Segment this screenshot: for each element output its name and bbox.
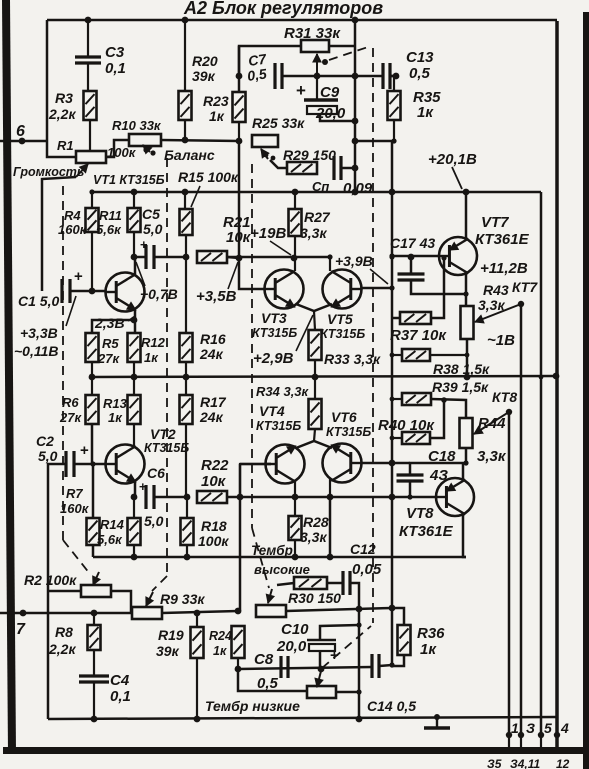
wire bottom bus (48, 717, 557, 719)
capacitor C12 (343, 541, 382, 595)
svg-text:R8: R8 (55, 624, 73, 640)
wire number 12 (556, 757, 570, 769)
svg-text:С4: С4 (110, 672, 130, 689)
capacitor C9 electrolytic (296, 81, 355, 122)
wire VT3 collector (294, 258, 296, 271)
ground symbol (424, 714, 450, 728)
svg-text:~0,11В: ~0,11В (14, 343, 59, 359)
svg-text:5,0: 5,0 (38, 448, 58, 464)
svg-text:3,3к: 3,3к (300, 225, 327, 241)
svg-text:С6: С6 (147, 465, 165, 481)
svg-text:3,3к: 3,3к (300, 529, 327, 545)
wire C7 right (283, 75, 394, 78)
svg-text:24к: 24к (199, 346, 224, 362)
svg-text:VT6: VT6 (331, 409, 357, 425)
svg-text:0,5: 0,5 (257, 675, 279, 692)
transistor VT5 (323, 270, 362, 309)
svg-text:R27: R27 (304, 209, 331, 225)
label Баланс (164, 147, 215, 163)
node VT4 collector (292, 494, 299, 501)
label 2,3В (94, 315, 135, 331)
wire input 6 (0, 138, 47, 145)
svg-text:+3,3В: +3,3В (20, 325, 58, 341)
label VT6 (326, 409, 371, 439)
wire C8/C14 row (238, 667, 372, 669)
svg-text:5: 5 (544, 720, 552, 736)
resistor R20 (179, 20, 218, 140)
wire mid bus (92, 376, 557, 377)
svg-text:1: 1 (511, 720, 519, 736)
svg-text:R36: R36 (417, 625, 445, 642)
resistor R27 (289, 192, 331, 258)
svg-text:КТ315Б: КТ315Б (326, 425, 371, 439)
resistor R15 (178, 169, 239, 257)
wire VT8 emitter bottom (463, 514, 466, 557)
potentiometer R44 (460, 415, 507, 465)
svg-text:R23: R23 (203, 93, 229, 109)
node R23/R25 (236, 138, 243, 145)
svg-text:10к: 10к (226, 229, 252, 246)
potentiometer R31 (284, 25, 341, 52)
wire VT4 base (240, 463, 271, 466)
wire VT7 base long (227, 253, 439, 258)
label +0,7В (136, 262, 178, 302)
svg-text:4: 4 (560, 720, 569, 736)
wire supply rail +20,1V (92, 191, 541, 194)
svg-text:5,6к: 5,6к (96, 222, 122, 237)
svg-text:0,5: 0,5 (409, 65, 431, 82)
label Тембр (251, 543, 293, 558)
resistor R22 (197, 457, 229, 503)
wire R2 right (111, 591, 131, 613)
resistor R28 (289, 497, 329, 557)
svg-text:1к: 1к (420, 641, 437, 658)
wire C13 right / R35 top (390, 73, 399, 80)
svg-text:R34 3,3к: R34 3,3к (256, 384, 310, 399)
wire terminal 1 drop (508, 412, 511, 735)
wire VT6 base right (362, 460, 410, 467)
node C17 top (408, 254, 415, 261)
capacitor C13 (383, 49, 434, 89)
node C18 bottom (407, 494, 412, 499)
potentiometer R25 (252, 115, 305, 147)
label VT8 (399, 505, 454, 540)
svg-text:VT8: VT8 (406, 505, 434, 522)
resistor R21 (197, 214, 252, 263)
svg-text:R30 150: R30 150 (288, 590, 341, 606)
node R12/R13 bus (131, 374, 138, 381)
resistor R30 (288, 577, 341, 606)
svg-text:2,2к: 2,2к (48, 106, 76, 122)
transistor VT3 (265, 270, 304, 309)
potentiometer vysokie pot (256, 605, 286, 617)
pot R2 wiper (93, 572, 100, 585)
potentiometer R1 (57, 138, 106, 163)
svg-text:R24: R24 (209, 629, 232, 643)
pin label 5 (544, 720, 552, 736)
node R39 left (390, 397, 395, 402)
svg-text:R40 10к: R40 10к (378, 417, 435, 434)
label VT5 (320, 311, 365, 341)
label Тембр низкие (205, 698, 300, 714)
label ~1В (487, 332, 515, 349)
wire VT2 emitter (134, 481, 137, 497)
resistor R35 (388, 76, 442, 141)
node C4 bottom (91, 716, 98, 723)
transistor VT8 (436, 478, 474, 516)
node R24 top (235, 608, 242, 615)
svg-text:R4: R4 (64, 208, 81, 223)
resistor R34 (256, 377, 322, 429)
dashed link R31 (329, 46, 371, 60)
svg-text:КТ8: КТ8 (492, 389, 517, 405)
svg-text:+: + (80, 442, 89, 459)
node rail x392 (389, 189, 396, 196)
label VT7 (475, 214, 530, 248)
wire VT7 collector bottom (465, 273, 468, 306)
wire terminal 3 drop (520, 304, 523, 735)
pot nizkie wiper (315, 671, 323, 687)
svg-text:VT3: VT3 (261, 310, 287, 326)
svg-text:+: + (139, 479, 147, 494)
wire VT4 collector (294, 480, 296, 497)
svg-text:20,0: 20,0 (315, 105, 346, 122)
node VT6 collector (327, 494, 334, 501)
node R38 right (465, 353, 470, 358)
svg-text:3,3к: 3,3к (477, 448, 507, 465)
svg-text:R17: R17 (200, 394, 227, 410)
resistor R17 (180, 377, 227, 497)
node R38 left (390, 353, 395, 358)
node R40 left (390, 436, 395, 441)
svg-text:+20,1В: +20,1В (428, 151, 477, 168)
transistor VT7 (439, 237, 477, 275)
pot R44 wiper (474, 409, 512, 434)
svg-text:+: + (296, 81, 306, 100)
node rail R11 (131, 189, 138, 196)
pot R9 wiper (146, 592, 153, 606)
wire terminal 4 drop (556, 376, 558, 735)
resistor R37 (390, 255, 447, 344)
node x355 R35wire (352, 138, 359, 145)
svg-text:С8: С8 (254, 651, 274, 668)
svg-text:R12: R12 (141, 335, 166, 350)
label 100к (R1) (107, 145, 137, 160)
svg-text:~1В: ~1В (487, 332, 515, 349)
svg-text:20,0: 20,0 (276, 638, 307, 655)
node +19V collector (291, 255, 298, 262)
svg-text:+3,5В: +3,5В (196, 288, 237, 305)
pin label 3 (526, 720, 535, 736)
label +3,5В (196, 262, 238, 305)
node VT1 collector (131, 254, 138, 261)
svg-text:R9 33к: R9 33к (160, 591, 205, 607)
wire C12 left (327, 582, 343, 585)
svg-text:39к: 39к (192, 68, 216, 84)
svg-text:С17 43: С17 43 (390, 235, 435, 251)
resistor R7 (60, 464, 100, 557)
svg-text:0,05: 0,05 (352, 561, 382, 578)
border frame right inner line (555, 21, 559, 747)
node lowerbus R18 (184, 554, 191, 561)
wire VT3 base column (239, 141, 265, 289)
node x392 base (389, 254, 394, 259)
svg-text:R16: R16 (200, 331, 226, 347)
node top rail junction R20 (182, 17, 189, 24)
svg-text:R3: R3 (55, 90, 73, 106)
wire terminal 5 drop (540, 192, 543, 735)
svg-text:КТ7: КТ7 (512, 279, 538, 295)
node C17 emitter (463, 291, 468, 296)
dashed link volume gang (63, 186, 90, 574)
capacitor C4 (79, 672, 131, 719)
wire VT6 collector (329, 479, 331, 497)
label +11,2В (480, 260, 528, 277)
svg-text:VT4: VT4 (259, 403, 285, 419)
wire C2 left loop (48, 464, 66, 719)
node R21 right (236, 255, 243, 262)
svg-text:З4,11: З4,11 (510, 757, 541, 769)
node x355/C7 (352, 73, 359, 80)
label 6 (16, 123, 25, 140)
svg-text:12: 12 (556, 757, 570, 769)
svg-text:100к: 100к (198, 533, 229, 549)
transistor VT6 (323, 444, 362, 483)
border frame right edge band (583, 12, 589, 769)
wire number 35 (487, 757, 502, 769)
capacitor C3 (75, 20, 126, 91)
resistor R24 (209, 626, 245, 668)
svg-text:VT1 КТ315Б: VT1 КТ315Б (93, 173, 165, 187)
node C9 bottom (352, 118, 359, 125)
svg-text:+: + (140, 237, 148, 252)
wire nizkie right (336, 691, 359, 694)
potentiometer R43 (461, 279, 539, 339)
dashed link nizkie (322, 626, 371, 668)
node terminal 1 (506, 732, 512, 738)
wire input 7 line (0, 610, 132, 617)
resistor R36 (392, 608, 445, 666)
svg-text:З: З (526, 720, 535, 736)
wire VT8 collector top (462, 463, 465, 480)
wire VT1 collector (134, 257, 137, 276)
node rail R27 (292, 189, 299, 196)
transistor VT1 (106, 273, 145, 312)
wire R35 bottom (355, 138, 397, 143)
label КТ8 (492, 389, 517, 405)
wire lower bus (93, 556, 466, 559)
wire R9 right tone (162, 611, 238, 613)
svg-text:160к: 160к (60, 501, 90, 516)
node R5/R6 bus (89, 374, 96, 381)
svg-text:1к: 1к (108, 410, 123, 425)
svg-text:1к: 1к (209, 108, 225, 124)
wire tone wire vysokie (286, 608, 392, 611)
svg-text:24к: 24к (199, 409, 224, 425)
pin label 4 (560, 720, 569, 736)
resistor R38 (392, 349, 490, 377)
label Громкость (13, 165, 84, 179)
svg-text:R22: R22 (201, 457, 229, 474)
label +3,9В (335, 253, 388, 284)
node lowerbus x330 (327, 554, 334, 561)
svg-text:10к: 10к (201, 473, 227, 490)
wire R23 top to R31 (239, 46, 301, 76)
dashed link bass gang (372, 48, 374, 623)
resistor R3 (48, 90, 97, 151)
resistor R5 (86, 317, 138, 377)
wire VT3 emitter join (296, 304, 332, 330)
svg-text:С5: С5 (142, 206, 160, 222)
border frame bottom bar (3, 747, 589, 754)
svg-text:С2: С2 (36, 433, 54, 449)
svg-text:R37 10к: R37 10к (390, 327, 447, 344)
pot R25 wiper (261, 149, 275, 160)
wire VT4/VT6 emitter join (296, 429, 332, 448)
svg-text:R1: R1 (57, 138, 74, 153)
svg-text:R14: R14 (100, 517, 125, 532)
wire VT5 collector (327, 254, 332, 271)
svg-text:VT7: VT7 (481, 214, 509, 231)
svg-text:С9: С9 (320, 84, 340, 101)
svg-text:5,0: 5,0 (143, 221, 163, 237)
svg-text:0,1: 0,1 (110, 688, 131, 705)
svg-text:1к: 1к (213, 644, 227, 658)
resistor R29 (283, 147, 336, 174)
pot R1 wiper (42, 164, 88, 291)
capacitor C6 (139, 465, 165, 529)
svg-text:Тембр низкие: Тембр низкие (205, 698, 300, 714)
svg-text:А2 Блок регуляторов: А2 Блок регуляторов (183, 0, 383, 18)
dashed link treble gang (252, 164, 269, 588)
svg-text:VT5: VT5 (327, 311, 353, 327)
wire R2 left loop (48, 590, 81, 593)
wire R43 bottom (466, 339, 469, 377)
wire R31 right (329, 45, 355, 48)
pot R10 wiper (143, 145, 156, 156)
resistor R23 (203, 46, 246, 141)
resistor R16 (180, 257, 226, 377)
svg-text:2,3В: 2,3В (94, 315, 125, 331)
pin label 1 (511, 720, 519, 736)
potentiometer R10 Баланс (112, 118, 162, 146)
node rail R4 (89, 189, 94, 194)
capacitor C17 (390, 235, 466, 294)
svg-text:С14 0,5: С14 0,5 (367, 698, 416, 714)
wire VT7 emitter top (465, 192, 468, 239)
node bus R33 (312, 374, 319, 381)
node nizkie x359 (356, 689, 361, 694)
label 7 (16, 621, 26, 638)
svg-text:R7: R7 (66, 486, 83, 501)
node tone x392 (389, 605, 396, 612)
wire C1 to VT1 base (70, 290, 106, 293)
svg-text:R11: R11 (99, 208, 122, 223)
label VT1 (93, 173, 165, 187)
svg-text:R38 1,5к: R38 1,5к (433, 361, 490, 377)
node top rail junction C3 (85, 17, 92, 24)
wire x330 to bus (329, 497, 332, 557)
node C18 top wire (463, 460, 468, 465)
node R19 top (194, 610, 201, 617)
svg-text:5,6к: 5,6к (97, 532, 123, 547)
svg-text:Сп: Сп (312, 179, 329, 194)
resistor R19 (156, 613, 204, 719)
label +19В (250, 225, 291, 255)
node rail R15 (182, 189, 189, 196)
svg-text:27к: 27к (97, 351, 120, 366)
svg-text:R25 33к: R25 33к (252, 115, 305, 131)
svg-text:R5: R5 (102, 336, 119, 351)
wire VT5 base (362, 285, 395, 290)
capacitor C11 (312, 156, 373, 197)
svg-text:КТ315Б: КТ315Б (256, 419, 301, 433)
wire R21 to VT3 node (227, 257, 239, 258)
wire C12 right down (350, 583, 359, 719)
label +3,3В (20, 296, 76, 341)
label R2 100к (24, 572, 77, 588)
svg-text:R20: R20 (192, 53, 218, 69)
svg-text:С10: С10 (281, 621, 309, 638)
svg-text:КТ315Б: КТ315Б (252, 326, 297, 340)
svg-text:R13: R13 (103, 396, 128, 411)
svg-text:С1 5,0: С1 5,0 (18, 293, 59, 309)
pot R31 wiper (313, 54, 328, 99)
label VT3 (252, 310, 297, 340)
wire R30 left to wiper (277, 583, 294, 585)
wire R10 to node R23 (161, 140, 239, 141)
svg-text:7: 7 (16, 621, 26, 638)
resistor R18 (181, 497, 230, 557)
node terminal 3 (518, 732, 524, 738)
svg-text:R43: R43 (483, 282, 509, 298)
resistor R33 (309, 330, 382, 377)
pot R43 wiper (475, 301, 524, 323)
node bus frame (553, 373, 560, 380)
svg-text:С3: С3 (105, 44, 125, 61)
resistor R40 (378, 401, 444, 444)
svg-text:R15 100к: R15 100к (178, 169, 239, 185)
node C5 right (183, 254, 190, 261)
wire C11 right (341, 165, 358, 172)
node R31 wiper tap (314, 73, 321, 80)
svg-text:39к: 39к (156, 643, 180, 659)
wire C6 right (154, 496, 186, 499)
title А2 Блок регуляторов (183, 0, 383, 18)
wire VT1 emitter (134, 310, 137, 333)
svg-text:Баланс: Баланс (164, 147, 215, 163)
svg-text:Громкость: Громкость (13, 165, 84, 179)
wire terminal stubs (509, 735, 557, 747)
label VT4 (256, 403, 301, 433)
wire R22 right (227, 496, 240, 499)
capacitor C7 (246, 50, 282, 89)
svg-text:R39 1,5к: R39 1,5к (432, 379, 489, 395)
node lowerbus R28 (292, 554, 299, 561)
svg-text:VT2: VT2 (150, 426, 176, 442)
svg-text:R31 33к: R31 33к (284, 25, 341, 42)
pot vysokie wiper (266, 589, 274, 603)
node R16 bus (183, 374, 190, 381)
capacitor C14 (367, 654, 416, 714)
svg-text:0,09: 0,09 (343, 180, 373, 197)
node lowerbus R14 (131, 554, 138, 561)
svg-text:R6: R6 (62, 395, 79, 410)
node C7 left (236, 73, 243, 80)
border frame left bar (2, 0, 16, 753)
capacitor C18 (397, 448, 467, 497)
node top rail junction x355 (352, 17, 359, 24)
